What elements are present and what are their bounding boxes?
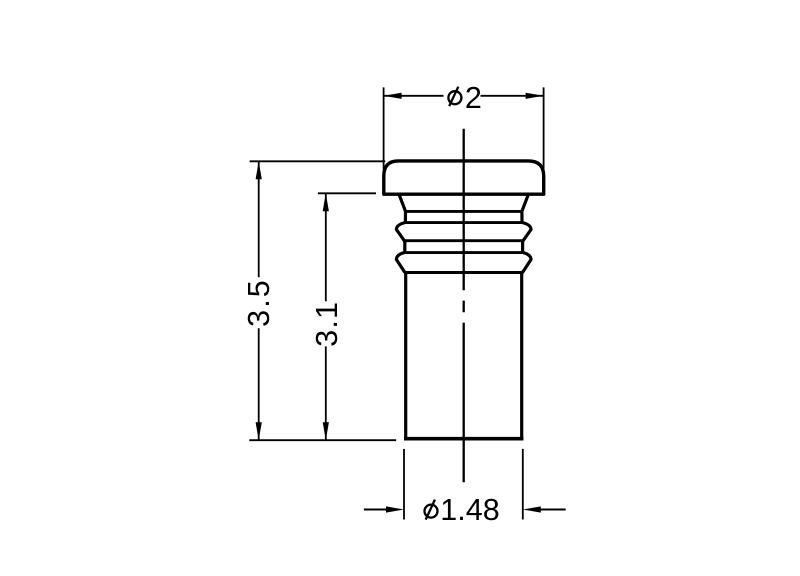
dimension ø1.48: leader tail left <box>364 509 387 511</box>
dimension ø1.48: arrow left (pointing right) <box>386 506 404 512</box>
dimension 3.1: dimension line <box>325 193 327 440</box>
dimension 3.5: extension lines <box>249 161 396 440</box>
dimension 3.5: arrow bottom <box>256 422 262 440</box>
dimension ø2: dimension line <box>384 95 544 97</box>
dimension ø2: arrow right <box>526 93 544 99</box>
dimension 3.5: arrow top <box>256 161 262 179</box>
dimension 3.1: arrow bottom <box>323 422 329 440</box>
dimension 3.1: arrow top <box>323 193 329 211</box>
dimension ø1.48: arrow right (pointing left) <box>523 506 541 512</box>
centerline (vertical axis, dash-dot) <box>463 129 465 483</box>
cap outline <box>384 161 544 194</box>
dimension 3.1: extension line <box>318 192 376 194</box>
body bottom edge <box>404 437 523 441</box>
dimension ø2: diameter symbol <box>448 91 461 104</box>
neck, rib 1, rib 2, body left+right profile <box>396 195 405 439</box>
svg-text:3.1: 3.1 <box>310 301 344 347</box>
rib horizontal edge lines <box>404 211 524 272</box>
svg-text:1.48: 1.48 <box>440 493 499 527</box>
dimension ø2: extension lines <box>384 87 544 170</box>
dimension ø1.48: diameter symbol <box>425 505 438 518</box>
dimension ø2: arrow left <box>384 93 402 99</box>
svg-text:3.5: 3.5 <box>242 278 276 327</box>
dimension ø1.48: leader tail right <box>540 509 566 511</box>
svg-text:2: 2 <box>465 81 482 115</box>
dimension ø1.48: extension lines <box>404 449 523 520</box>
dimension 3.5: dimension line <box>258 161 260 440</box>
